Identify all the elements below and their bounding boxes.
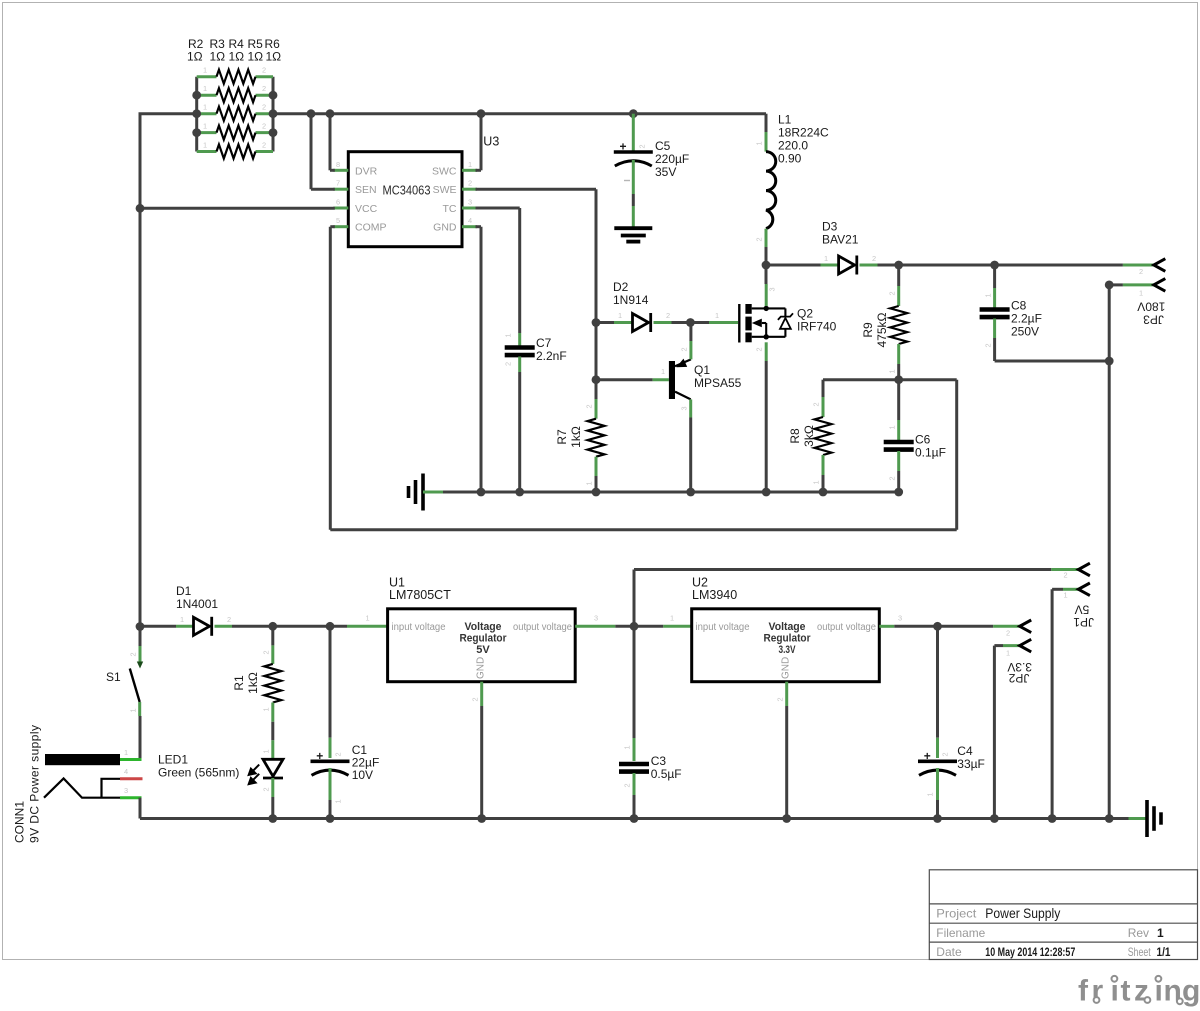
svg-text:2: 2 [129,652,138,656]
svg-text:1: 1 [504,333,513,337]
svg-text:3kΩ: 3kΩ [802,425,816,447]
svg-text:0.1µF: 0.1µF [915,446,946,460]
svg-text:JP2: JP2 [1008,671,1029,685]
svg-text:180V: 180V [1137,300,1165,314]
svg-text:1Ω: 1Ω [229,50,245,64]
svg-text:output voltage: output voltage [513,622,572,633]
svg-text:2: 2 [334,752,343,756]
svg-text:Regulator: Regulator [460,633,508,645]
svg-text:C3: C3 [651,754,667,768]
svg-text:Date: Date [936,945,962,959]
svg-text:250V: 250V [1011,325,1039,339]
svg-text:2: 2 [872,254,876,263]
svg-text:1: 1 [129,708,138,712]
svg-text:input voltage: input voltage [696,622,750,633]
svg-text:1: 1 [715,311,719,320]
svg-text:Power Supply: Power Supply [985,905,1060,921]
svg-text:2: 2 [1064,571,1068,580]
svg-text:4: 4 [124,767,128,776]
svg-text:TC: TC [443,203,457,215]
svg-text:5V: 5V [1075,602,1090,616]
svg-text:Rev: Rev [1128,926,1149,940]
svg-text:2: 2 [1139,267,1143,276]
svg-text:GND: GND [476,657,487,679]
svg-text:220.0: 220.0 [778,139,808,153]
svg-text:18R224C: 18R224C [778,126,829,140]
svg-text:3: 3 [898,614,902,623]
svg-text:1: 1 [984,293,993,297]
svg-text:33µF: 33µF [957,757,985,771]
svg-text:CONN1: CONN1 [13,801,27,843]
svg-text:2: 2 [755,347,764,351]
svg-text:1: 1 [824,254,828,263]
svg-text:C6: C6 [915,433,931,447]
svg-text:Q2: Q2 [797,307,813,321]
svg-text:R9: R9 [861,322,875,338]
svg-text:U3: U3 [483,135,499,149]
svg-text:1: 1 [1139,289,1143,298]
svg-text:JP1: JP1 [1073,615,1094,629]
svg-text:8: 8 [336,160,340,169]
svg-text:2: 2 [638,144,647,148]
svg-text:3: 3 [768,287,777,291]
svg-text:5V: 5V [476,644,490,656]
svg-text:Project: Project [936,907,977,921]
svg-text:10V: 10V [352,768,373,782]
svg-text:S1: S1 [106,670,121,684]
svg-text:1: 1 [888,369,897,373]
svg-text:2.2nF: 2.2nF [536,349,567,363]
svg-text:JP3: JP3 [1143,313,1164,327]
svg-text:BAV21: BAV21 [822,233,859,247]
svg-text:1N4001: 1N4001 [176,597,218,611]
svg-text:Green (565nm): Green (565nm) [158,766,239,780]
svg-text:1: 1 [180,615,184,624]
svg-text:input voltage: input voltage [392,622,446,633]
svg-text:1: 1 [812,480,821,484]
svg-text:1: 1 [661,367,665,376]
svg-text:1: 1 [124,748,128,757]
svg-text:R1: R1 [232,675,246,691]
svg-text:2: 2 [1006,629,1010,638]
svg-text:1: 1 [468,160,472,169]
svg-text:2: 2 [262,141,266,150]
svg-text:g: g [1182,975,1200,1008]
svg-text:1: 1 [1006,649,1010,658]
svg-text:2: 2 [262,103,266,112]
svg-text:2: 2 [227,615,231,624]
svg-text:GND: GND [433,222,457,234]
svg-text:1: 1 [670,614,674,623]
svg-text:0.90: 0.90 [778,152,802,166]
svg-text:3: 3 [594,614,598,623]
svg-text:3: 3 [124,786,128,795]
svg-text:1: 1 [623,745,632,749]
svg-text:3: 3 [680,406,689,410]
svg-text:2: 2 [262,650,271,654]
svg-text:1Ω: 1Ω [210,50,226,64]
svg-text:1: 1 [203,141,207,150]
svg-text:D1: D1 [176,584,192,598]
svg-text:SEN: SEN [355,184,377,196]
svg-text:2: 2 [680,347,689,351]
svg-text:1Ω: 1Ω [187,50,203,64]
svg-text:0.5µF: 0.5µF [651,767,682,781]
svg-text:2: 2 [471,697,480,701]
svg-text:1: 1 [334,799,343,803]
svg-text:1kΩ: 1kΩ [246,672,260,694]
svg-text:VCC: VCC [355,203,378,215]
svg-text:35V: 35V [655,165,676,179]
svg-text:t: t [1121,975,1131,1008]
svg-text:5: 5 [336,216,340,225]
svg-text:L1: L1 [778,113,792,127]
svg-text:1: 1 [366,614,370,623]
svg-text:+: + [924,749,931,763]
svg-text:Filename: Filename [936,926,985,940]
svg-text:MPSA55: MPSA55 [694,376,742,390]
svg-text:2: 2 [468,179,472,188]
svg-text:1N914: 1N914 [613,293,649,307]
svg-text:2: 2 [941,752,950,756]
svg-text:Voltage: Voltage [465,621,502,633]
svg-text:1: 1 [926,792,935,796]
svg-text:1: 1 [1064,591,1068,600]
svg-text:1Ω: 1Ω [266,50,282,64]
svg-text:DVR: DVR [355,165,378,177]
svg-text:SWC: SWC [432,165,457,177]
svg-text:9V DC Power supply: 9V DC Power supply [28,725,42,843]
svg-text:SWE: SWE [433,184,457,196]
svg-text:2: 2 [666,311,670,320]
svg-text:1: 1 [262,749,271,753]
svg-text:D3: D3 [822,220,838,234]
svg-text:MC34063: MC34063 [383,182,431,197]
svg-text:220µF: 220µF [655,152,689,166]
svg-text:C8: C8 [1011,299,1027,313]
svg-text:10 May 2014 12:28:57: 10 May 2014 12:28:57 [985,945,1075,959]
svg-text:f: f [1078,975,1089,1008]
svg-text:R8: R8 [788,428,802,444]
svg-text:1: 1 [203,66,207,75]
svg-text:1: 1 [262,707,271,711]
svg-text:Q1: Q1 [694,363,710,377]
svg-text:Voltage: Voltage [769,621,806,633]
svg-text:2: 2 [984,343,993,347]
svg-text:2: 2 [262,122,266,131]
svg-text:7: 7 [336,179,340,188]
svg-text:2: 2 [585,404,594,408]
svg-text:2: 2 [504,362,513,366]
svg-text:1Ω: 1Ω [248,50,264,64]
svg-text:2: 2 [812,402,821,406]
svg-text:2: 2 [623,783,632,787]
svg-text:1: 1 [203,103,207,112]
svg-text:Sheet: Sheet [1128,945,1151,959]
svg-text:1: 1 [203,84,207,93]
svg-text:1: 1 [618,311,622,320]
svg-text:6: 6 [336,198,340,207]
svg-text:475kΩ: 475kΩ [875,312,889,347]
svg-text:2.2µF: 2.2µF [1011,312,1042,326]
svg-text:GND: GND [781,657,792,679]
svg-text:2: 2 [262,66,266,75]
svg-text:output voltage: output voltage [817,622,876,633]
svg-text:LED1: LED1 [158,753,188,767]
svg-text:LM7805CT: LM7805CT [389,588,451,602]
svg-text:2: 2 [262,84,266,93]
svg-text:1kΩ: 1kΩ [569,426,583,448]
svg-text:+: + [620,140,627,154]
svg-text:1: 1 [888,425,897,429]
svg-text:D2: D2 [613,280,629,294]
svg-text:2: 2 [776,697,785,701]
svg-text:IRF740: IRF740 [797,320,837,334]
svg-text:1: 1 [755,141,764,145]
svg-text:2: 2 [888,476,897,480]
svg-text:1/1: 1/1 [1157,945,1171,959]
svg-text:COMP: COMP [355,222,387,234]
svg-text:C7: C7 [536,336,552,350]
svg-text:2: 2 [755,237,764,241]
svg-text:4: 4 [468,216,472,225]
svg-text:1: 1 [1157,926,1164,940]
svg-text:Regulator: Regulator [764,633,812,645]
svg-text:+: + [316,749,323,763]
svg-text:3: 3 [468,198,472,207]
svg-text:C5: C5 [655,139,671,153]
svg-text:C4: C4 [957,744,973,758]
svg-text:LM3940: LM3940 [692,588,737,602]
svg-text:1: 1 [203,122,207,131]
svg-text:2: 2 [888,291,897,295]
svg-text:1: 1 [585,481,594,485]
svg-text:R7: R7 [555,429,569,445]
svg-text:3.3V: 3.3V [779,644,796,656]
svg-text:2: 2 [262,787,271,791]
